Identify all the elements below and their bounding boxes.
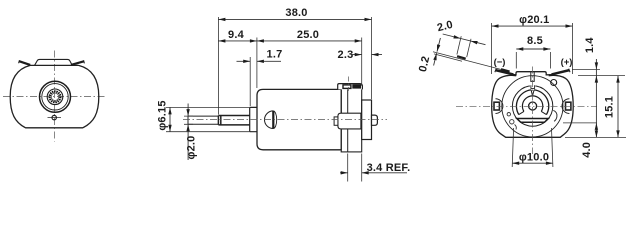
filled terminal (edge on) (352, 84, 361, 88)
rear housing outline (492, 75, 574, 137)
rear view vertical centerline (532, 67, 534, 155)
svg-text:(+): (+) (561, 57, 573, 68)
end cap circle (502, 76, 563, 137)
terminal centerline (347, 77, 349, 92)
shaft main section (218, 116, 249, 125)
dimension 2.0 terminal width (443, 34, 486, 57)
svg-text:φ10.0: φ10.0 (519, 151, 549, 163)
right terminal tip fold (569, 69, 570, 73)
commutator ring outer arc (516, 90, 548, 115)
extension line can front face (256, 38, 258, 89)
side view horizontal centerline (183, 119, 387, 121)
terminal block on end cap (338, 84, 363, 90)
left side ear pocket (494, 99, 503, 114)
dimension 1.4 and 4.0 shared line (595, 59, 598, 137)
right terminal (+) (549, 69, 569, 77)
shaft tip section (188, 116, 218, 124)
slot at top of brush plate circle (530, 85, 535, 89)
vent hole below bearing (48, 115, 62, 119)
small rivet left (507, 113, 510, 116)
top tab with steps (rear view) (514, 72, 550, 76)
dimension 0.2 (433, 38, 440, 66)
front bearing boss outer ring (40, 81, 71, 112)
svg-text:8.5: 8.5 (527, 35, 543, 47)
extension line cap rear face (361, 38, 363, 87)
right terminal seen from front (71, 60, 84, 65)
extension line boss front face (249, 57, 251, 106)
hollow terminal slot (343, 85, 351, 89)
motor can outline (front view) (10, 65, 99, 127)
svg-text:25.0: 25.0 (297, 29, 319, 41)
end cap slab (side view) (341, 87, 362, 152)
shaft center hole (529, 102, 537, 110)
dimension 2.3 (352, 53, 382, 56)
left terminal seen from front (19, 60, 31, 65)
dimension 3.4 REF. (340, 171, 407, 174)
extension line brush bar level (563, 122, 597, 124)
svg-text:1.7: 1.7 (267, 49, 283, 61)
rear view horizontal centerline (456, 105, 597, 107)
ring top V notch (531, 90, 534, 96)
dimension dia 6.15 (168, 107, 171, 131)
front view horizontal centerline (3, 96, 107, 98)
dimension 38.0 (218, 18, 371, 21)
extension line bottom flat level (565, 136, 626, 138)
knurled shaft end (50, 91, 61, 102)
extension line terminal tip level (572, 68, 600, 70)
vent dome on can (265, 111, 277, 129)
motor can (side view) (257, 89, 341, 149)
svg-text:1.4: 1.4 (584, 37, 596, 54)
dimension 8.5 (516, 47, 550, 50)
svg-text:15.1: 15.1 (604, 96, 616, 118)
svg-text:3.4 REF.: 3.4 REF. (367, 162, 411, 174)
extension line rear plate face (371, 17, 373, 99)
rear bearing nub (372, 115, 378, 125)
front view vertical centerline (53, 51, 55, 142)
brush plate circle dia 10 (512, 86, 552, 126)
dimension 25.0 (257, 39, 362, 42)
can crimp line (347, 87, 349, 152)
extension line shaft step (217, 17, 219, 115)
terminal surface extension line (433, 52, 509, 72)
top slot in tab (531, 72, 534, 82)
small hole top right (551, 80, 557, 86)
left terminal (-) (496, 69, 516, 77)
rear brush plate (362, 100, 372, 140)
commutator ring inner arc (522, 96, 542, 112)
internal bearing boss in cap (338, 113, 361, 129)
svg-text:38.0: 38.0 (285, 7, 307, 19)
svg-text:φ2.0: φ2.0 (186, 136, 198, 160)
terminal thickness dashes (457, 56, 510, 71)
dimension dia 20.1 (492, 24, 573, 27)
dimension dia 2.0 shaft (184, 104, 193, 161)
svg-text:(−): (−) (494, 57, 506, 68)
brush arm lower right (553, 110, 557, 121)
dimension 1.7 (237, 60, 282, 63)
dimension dia 10.0 (512, 162, 553, 165)
svg-text:9.4: 9.4 (228, 29, 245, 41)
ring end faces (519, 111, 547, 114)
svg-text:2.3: 2.3 (338, 49, 354, 61)
extension lines boss diameter (166, 107, 249, 131)
right side ear pocket (562, 99, 571, 114)
front bearing boss (side view) (250, 107, 257, 131)
svg-text:φ6.15: φ6.15 (157, 100, 169, 130)
svg-text:4.0: 4.0 (581, 142, 593, 158)
brush bar (517, 119, 549, 123)
boss front nub (334, 117, 338, 125)
extension line top flat level (578, 75, 625, 77)
bearing circle (47, 89, 63, 105)
dimension 9.4 (218, 39, 257, 42)
extension lines dia 10 (512, 128, 553, 167)
extension lines 3.4 REF (348, 154, 362, 182)
top locating tab (front view) (35, 59, 73, 65)
extension lines 8.5 (516, 52, 550, 69)
left terminal tip fold (495, 69, 496, 73)
svg-text:φ20.1: φ20.1 (519, 14, 549, 26)
dimension 15.1 (616, 76, 619, 138)
extension lines dia 20.1 (492, 23, 573, 74)
brush arm lower left (510, 120, 517, 130)
